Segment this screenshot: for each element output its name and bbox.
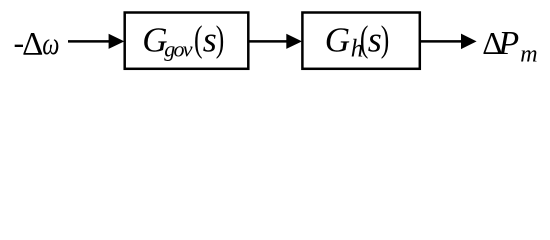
svg-text:(: ( — [194, 17, 203, 59]
wire output arrowhead — [461, 34, 477, 50]
svg-text:G: G — [325, 21, 350, 60]
block G_gov(s) box — [125, 13, 249, 69]
svg-text:): ) — [381, 17, 390, 59]
wire input line — [68, 40, 111, 43]
wire input arrowhead — [109, 34, 125, 49]
block G_h(s) box — [302, 13, 419, 69]
svg-text:): ) — [216, 17, 225, 59]
wire middle arrowhead — [286, 34, 302, 49]
wire output line — [420, 40, 463, 43]
svg-text:Δ: Δ — [22, 27, 43, 63]
svg-text:ω: ω — [42, 27, 59, 62]
svg-text:m: m — [520, 42, 537, 68]
wire middle line — [248, 40, 288, 43]
svg-text:P: P — [497, 25, 519, 62]
svg-text:s: s — [368, 20, 382, 60]
svg-text:gov: gov — [164, 37, 193, 62]
